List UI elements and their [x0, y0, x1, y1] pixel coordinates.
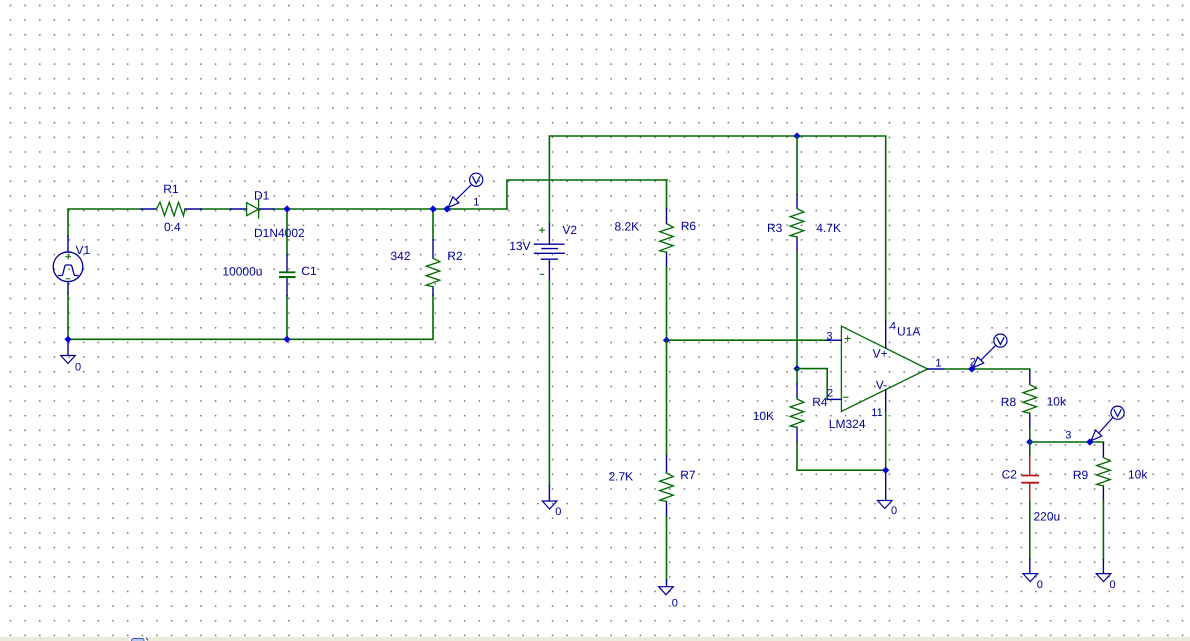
svg-text:4.7K: 4.7K — [816, 221, 841, 235]
svg-text:V+: V+ — [873, 346, 888, 360]
svg-text:2: 2 — [970, 356, 976, 368]
svg-text:10k: 10k — [1128, 467, 1148, 481]
junction probe node 1 — [443, 205, 450, 212]
capacitor C1 — [286, 255, 288, 296]
junction V1 bottom — [64, 336, 71, 343]
balloon fragment — [130, 638, 149, 641]
junction bottom rail / ground — [882, 467, 889, 474]
svg-text:2: 2 — [827, 387, 833, 399]
ground 0 at R7 — [666, 581, 668, 587]
resistor R9 — [1102, 444, 1104, 502]
junction node R2 top — [429, 205, 436, 212]
svg-text:R1: R1 — [163, 182, 179, 196]
wire C2 bottom to ground — [1029, 501, 1031, 560]
resistor R1 — [141, 208, 201, 210]
op-amp output pin 1 lead — [928, 368, 944, 370]
svg-text:13V: 13V — [509, 239, 530, 253]
svg-text:U1A: U1A — [897, 324, 920, 338]
wire plus-input net — [667, 339, 828, 341]
wire pin 11 to bottom rail — [885, 413, 887, 470]
svg-text:R4: R4 — [812, 395, 828, 409]
wire net 3 — [1030, 442, 1104, 444]
wire R1 to D1 — [202, 208, 231, 210]
svg-text:3: 3 — [826, 330, 832, 342]
svg-text:0: 0 — [1037, 579, 1043, 591]
wire output net to R8 — [944, 369, 1030, 371]
ground 0 at R9 — [1102, 560, 1104, 574]
svg-text:C1: C1 — [301, 264, 317, 278]
resistor R6 — [666, 209, 668, 268]
op-amp pin 3 lead — [827, 339, 841, 341]
resistor R4 — [796, 369, 798, 384]
wire D1 to node1 area — [274, 208, 507, 210]
svg-text:V2: V2 — [562, 223, 577, 237]
svg-text:R7: R7 — [680, 468, 696, 482]
ground 0 at V1 — [67, 339, 69, 355]
wire R6 bottom to junction — [666, 268, 668, 341]
resistor R8 — [1029, 371, 1031, 429]
wire R4 bottom to bottom rail — [797, 443, 886, 470]
op-amp minus mark — [843, 396, 848, 398]
resistor R7 — [666, 340, 668, 456]
wire minus-input net — [797, 369, 827, 400]
voltage probe node 3 — [1091, 406, 1124, 441]
svg-text:11: 11 — [871, 407, 882, 419]
op-amp U1A triangle — [841, 326, 927, 411]
voltage probe node 2 — [973, 334, 1007, 368]
status bar strip — [0, 637, 1190, 641]
voltage probe node 1 — [448, 173, 483, 207]
svg-text:V-: V- — [876, 378, 887, 392]
svg-text:R6: R6 — [681, 219, 697, 233]
junction C1 bottom — [283, 336, 290, 343]
wire C1 top drop — [286, 209, 288, 255]
ground 0 at C2 — [1029, 560, 1031, 574]
resistor R2 — [432, 240, 434, 295]
resistor R3 — [796, 194, 798, 252]
junction node D1/C1 — [283, 205, 290, 212]
wire R3 bottom to junction — [796, 253, 798, 369]
svg-text:220u: 220u — [1034, 509, 1061, 523]
svg-text:V1: V1 — [76, 243, 91, 257]
wire node1 up-over to R6 — [507, 180, 667, 209]
wire R7 bottom to ground — [666, 517, 668, 581]
svg-text:R3: R3 — [767, 221, 783, 235]
svg-text:0: 0 — [672, 597, 678, 609]
svg-text:8.2K: 8.2K — [615, 220, 640, 234]
svg-text:0.4: 0.4 — [164, 220, 181, 234]
svg-text:10000u: 10000u — [222, 264, 262, 278]
svg-text:10k: 10k — [1047, 394, 1067, 408]
svg-text:0: 0 — [1110, 579, 1116, 591]
junction R6/R7 — [663, 337, 670, 344]
junction probe node 3 — [1086, 438, 1093, 445]
op-amp pin 11 lead — [885, 390, 887, 413]
junction top rail / R3 — [793, 132, 800, 139]
svg-text:3: 3 — [1065, 430, 1071, 442]
wire R3 top drop — [796, 136, 798, 194]
wire bottom rail V1 to R2 — [68, 295, 433, 339]
op-amp pin 4 lead — [885, 321, 887, 348]
wire top rail from V2 to op-amp V+ — [549, 136, 885, 321]
wire V2 bottom to ground — [548, 281, 550, 486]
junction R3/R4/minus-input — [793, 365, 800, 372]
wire R2 top drop — [432, 209, 434, 240]
svg-text:R8: R8 — [1001, 395, 1017, 409]
svg-text:342: 342 — [391, 249, 411, 263]
svg-text:R9: R9 — [1073, 468, 1089, 482]
wire top-left net from V1 to R1 — [68, 209, 141, 236]
capacitor C2 — [1029, 442, 1031, 456]
wire V1 bottom — [67, 293, 69, 339]
ground 0 at op-amp — [885, 470, 887, 500]
ground 0 at V2 — [548, 486, 550, 501]
op-amp plus mark — [845, 336, 850, 341]
svg-text:4: 4 — [890, 320, 896, 332]
junction probe node 2 — [968, 365, 975, 372]
svg-text:0: 0 — [891, 505, 897, 517]
svg-text:0: 0 — [555, 506, 561, 518]
svg-text:1: 1 — [935, 358, 941, 370]
svg-text:R2: R2 — [447, 249, 463, 263]
wire R6 top drop — [666, 180, 668, 209]
wire C1 bottom drop — [286, 296, 288, 340]
svg-text:D1N4002: D1N4002 — [254, 226, 305, 240]
svg-text:LM324: LM324 — [829, 417, 866, 431]
op-amp pin 2 lead — [827, 398, 841, 400]
wire R8 bottom to junction — [1029, 429, 1031, 442]
svg-text:1: 1 — [473, 196, 479, 208]
diode D1 — [231, 208, 274, 210]
wire R9 bottom to ground — [1102, 501, 1104, 559]
svg-text:0: 0 — [75, 361, 81, 373]
source V1 — [67, 236, 69, 293]
svg-text:10K: 10K — [753, 409, 774, 423]
battery V2 — [535, 224, 565, 281]
svg-text:C2: C2 — [1002, 467, 1018, 481]
svg-text:D1: D1 — [254, 189, 270, 203]
junction R8/C2/net3 — [1026, 438, 1033, 445]
svg-text:2.7K: 2.7K — [609, 469, 634, 483]
